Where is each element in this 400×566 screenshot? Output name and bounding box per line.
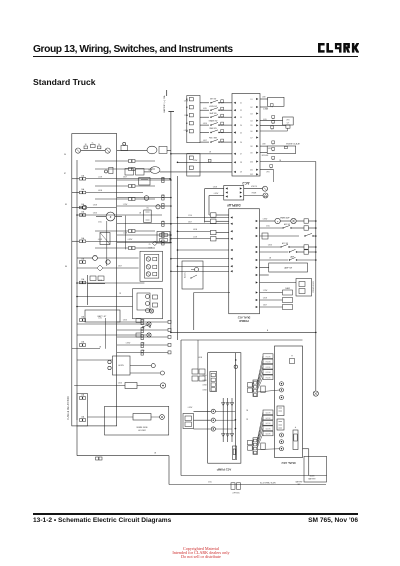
svg-text:85: 85 xyxy=(65,204,67,206)
pilot lamp xyxy=(160,383,165,388)
wire xyxy=(87,275,89,305)
pump pin 4 xyxy=(211,388,215,391)
wire xyxy=(171,270,229,272)
connector CN6 xyxy=(162,233,164,235)
svg-text:1.25B: 1.25B xyxy=(123,233,127,235)
terminal T2 xyxy=(280,388,284,392)
switch S2 HORN SW xyxy=(200,109,209,111)
svg-text:20AMP: 20AMP xyxy=(285,287,290,290)
svg-text:0.85W: 0.85W xyxy=(263,219,268,221)
power pin L2 xyxy=(230,223,232,225)
turn lamp 2 xyxy=(146,265,150,269)
svg-text:0.85L: 0.85L xyxy=(98,222,102,224)
svg-text:PARK SW: PARK SW xyxy=(209,127,217,130)
terminal circle 3 xyxy=(211,427,215,431)
power unit block DUAL ACJ POWER xyxy=(229,209,260,314)
wire xyxy=(95,185,129,187)
relay label box 1-1 xyxy=(263,354,273,359)
svg-text:1.25W: 1.25W xyxy=(263,290,268,292)
module label xyxy=(260,152,267,154)
feeder cluster xyxy=(192,369,198,374)
svg-text:D8: D8 xyxy=(251,146,253,148)
connector 2x xyxy=(248,440,253,444)
svg-text:BATTERY: BATTERY xyxy=(308,478,316,481)
wire xyxy=(258,367,264,386)
svg-text:2R: 2R xyxy=(209,152,212,154)
right bus wire xyxy=(315,162,317,392)
pin xyxy=(254,451,257,454)
relay label box 2-2 xyxy=(263,415,273,420)
power pin R12 xyxy=(256,306,258,308)
power pin R5 xyxy=(256,251,258,253)
svg-text:D5: D5 xyxy=(251,125,253,127)
wire xyxy=(95,160,129,162)
svg-text:15A: 15A xyxy=(81,278,85,281)
relay label box 2-4 xyxy=(263,426,273,431)
wire xyxy=(77,334,147,336)
wire xyxy=(95,230,129,232)
svg-text:0.85W: 0.85W xyxy=(184,130,189,132)
svg-text:1.25R: 1.25R xyxy=(98,177,103,179)
svg-text:10A: 10A xyxy=(142,319,146,322)
svg-text:0.85B: 0.85B xyxy=(198,357,202,359)
connector xyxy=(221,107,224,110)
wire xyxy=(258,434,264,448)
connector block xyxy=(277,419,284,430)
svg-text:0.85B: 0.85B xyxy=(203,390,207,392)
wire xyxy=(258,423,264,443)
wire xyxy=(117,234,162,236)
svg-text:2R: 2R xyxy=(246,419,249,421)
wire xyxy=(96,216,106,218)
wire xyxy=(258,377,264,389)
svg-text:LAMP SW: LAMP SW xyxy=(284,267,293,270)
aux sensor xyxy=(105,170,108,173)
svg-text:LOW: LOW xyxy=(262,144,266,146)
wire xyxy=(258,390,280,392)
power pin L5 xyxy=(230,249,232,251)
connector xyxy=(270,104,273,107)
connector 2x xyxy=(248,383,253,387)
wire xyxy=(258,356,264,382)
wire xyxy=(117,321,141,323)
wire xyxy=(77,296,133,298)
svg-text:30: 30 xyxy=(64,154,66,156)
terminal circle 2 xyxy=(211,418,215,422)
wire xyxy=(258,428,264,445)
svg-text:D1: D1 xyxy=(251,99,253,101)
connector xyxy=(208,159,211,162)
svg-text:10A: 10A xyxy=(162,194,166,197)
svg-text:0.85B: 0.85B xyxy=(203,385,207,387)
svg-text:D11: D11 xyxy=(250,170,253,172)
connector CN14 xyxy=(211,219,217,223)
svg-text:+: + xyxy=(295,426,297,429)
connector xyxy=(260,124,286,126)
wire to main right bus xyxy=(260,161,316,163)
svg-text:15A: 15A xyxy=(162,232,166,235)
wire xyxy=(117,352,141,354)
ACJ pin L6 xyxy=(234,141,236,143)
horn terminal 1 xyxy=(130,365,151,367)
diode xyxy=(226,403,230,406)
wire xyxy=(205,188,224,190)
relay label box 1-5 xyxy=(263,375,273,380)
svg-text:B+: B+ xyxy=(92,142,94,144)
aux box xyxy=(261,443,265,450)
subtitle Standard Truck xyxy=(33,77,96,87)
pin xyxy=(254,447,257,450)
wire xyxy=(171,153,232,155)
svg-text:D7: D7 xyxy=(251,137,253,139)
svg-text:0.85G: 0.85G xyxy=(93,213,98,215)
flasher unit ⊗ 1 xyxy=(147,322,151,326)
lamp L4 xyxy=(144,196,149,201)
svg-text:0.85R: 0.85R xyxy=(93,205,98,207)
svg-text:15A: 15A xyxy=(81,211,85,214)
footer left text xyxy=(33,517,171,524)
main bus wire 1 xyxy=(170,112,172,333)
svg-text:C4: C4 xyxy=(240,125,242,127)
hourmeter symbol xyxy=(244,188,263,190)
console box xyxy=(260,282,297,284)
relay K3 pins xyxy=(146,295,150,299)
svg-text:LOW OIL: LOW OIL xyxy=(251,186,257,188)
svg-text:0.85Y: 0.85Y xyxy=(203,140,207,142)
svg-text:0.85W: 0.85W xyxy=(214,193,219,195)
ACJ pin L5 xyxy=(234,131,236,133)
svg-text:1.25B: 1.25B xyxy=(184,115,188,117)
svg-text:0.85Y: 0.85Y xyxy=(118,266,122,268)
node starter terminal xyxy=(105,148,110,153)
display pin xyxy=(226,195,228,197)
svg-text:10A: 10A xyxy=(81,316,85,319)
buzzer B1 xyxy=(260,220,276,222)
svg-text:BATTERY (+), 30A: BATTERY (+), 30A xyxy=(163,95,166,112)
svg-text:Z: Z xyxy=(110,215,112,219)
svg-text:1.25W: 1.25W xyxy=(123,204,128,206)
main bus wire 2 xyxy=(177,176,179,340)
relay label box 2-5 xyxy=(263,431,273,436)
wire xyxy=(117,223,162,225)
switch S9 xyxy=(260,251,289,253)
svg-text:BATTERY: BATTERY xyxy=(296,481,303,484)
svg-text:25: 25 xyxy=(149,244,151,246)
svg-text:POWER: POWER xyxy=(239,319,249,322)
svg-text:HOLDER: HOLDER xyxy=(138,430,146,432)
fuel gauge symbol xyxy=(244,195,263,197)
pin 6 xyxy=(189,156,193,159)
connector block CN1b xyxy=(187,154,200,177)
connector CN7 xyxy=(162,240,164,242)
resistor R2 xyxy=(125,383,137,389)
connector CN16 xyxy=(211,237,217,241)
diode xyxy=(221,434,225,437)
connector CN11 xyxy=(141,343,143,345)
connector CN13 xyxy=(211,213,217,217)
connector block xyxy=(277,406,284,416)
svg-text:0.85L: 0.85L xyxy=(266,226,270,228)
svg-text:10A: 10A xyxy=(81,237,85,240)
wire xyxy=(72,348,100,350)
wire xyxy=(117,329,141,331)
svg-text:HOUR: HOUR xyxy=(252,193,257,195)
svg-text:0.85B: 0.85B xyxy=(98,280,102,282)
wire xyxy=(77,455,169,457)
pump internal bus xyxy=(234,353,236,459)
connector CN5 xyxy=(162,221,164,223)
svg-text:10A: 10A xyxy=(81,188,85,191)
ACJ pump unit box xyxy=(208,353,241,464)
svg-text:CONSOLE BOX: CONSOLE BOX xyxy=(313,280,315,293)
svg-text:ACC SW: ACC SW xyxy=(282,242,289,245)
connector CN10 xyxy=(141,335,143,337)
ACJ pin R12 xyxy=(256,173,258,175)
lamp L1 xyxy=(82,205,86,209)
svg-text:C7: C7 xyxy=(240,154,242,156)
relay label box 2-3 xyxy=(263,421,273,426)
diode xyxy=(221,403,225,406)
pump pin 2 xyxy=(211,378,215,381)
ACJ pin R8 xyxy=(256,145,258,147)
svg-text:FUSE & RELAY BOX: FUSE & RELAY BOX xyxy=(67,396,70,420)
fuse and relay box outline xyxy=(72,134,117,426)
svg-text:ACCEL: ACCEL xyxy=(183,272,186,278)
pin xyxy=(254,390,257,393)
connector CN4 xyxy=(162,204,164,206)
wire xyxy=(117,150,147,152)
ACJ pin R3 xyxy=(256,112,258,114)
svg-text:86: 86 xyxy=(65,266,67,268)
indicator LOW xyxy=(260,98,268,100)
hazard diamond xyxy=(153,241,157,245)
svg-text:C6: C6 xyxy=(240,142,242,144)
svg-text:SPARE FUSE: SPARE FUSE xyxy=(136,426,148,429)
svg-text:BATT–ST: BATT–ST xyxy=(98,315,107,318)
svg-text:D3: D3 xyxy=(251,113,253,115)
wire xyxy=(258,412,264,439)
svg-text:B-CON: B-CON xyxy=(266,434,270,436)
pin xyxy=(254,386,257,389)
wire xyxy=(178,265,229,267)
svg-text:C5: C5 xyxy=(240,132,242,134)
wire xyxy=(77,214,162,216)
pump contactor block xyxy=(183,414,194,429)
svg-text:D2: D2 xyxy=(251,107,253,109)
wire xyxy=(117,336,141,338)
fuse 20A xyxy=(260,299,283,301)
wire xyxy=(178,217,229,219)
svg-text:B-CON: B-CON xyxy=(266,418,270,420)
horn H1 xyxy=(113,356,131,375)
switch S1 KEY SW xyxy=(200,102,209,104)
wire xyxy=(215,410,235,412)
terminal pair xyxy=(108,360,111,363)
power pin L4 xyxy=(230,238,232,240)
switch S3 SEAT SW xyxy=(200,116,209,118)
connector CN24 xyxy=(129,230,132,233)
wire xyxy=(117,344,141,346)
svg-text:0.85G: 0.85G xyxy=(123,320,128,322)
wire xyxy=(178,230,211,232)
fuse 10A xyxy=(260,306,283,308)
ground lamp ⊗ xyxy=(313,391,318,396)
terminal T1 xyxy=(280,382,284,386)
svg-text:0.85R: 0.85R xyxy=(213,186,218,188)
svg-text:OIL: OIL xyxy=(146,208,149,210)
svg-text:P-CON: P-CON xyxy=(266,362,270,364)
connector CN22 xyxy=(129,185,132,188)
relay label box 1-4 xyxy=(263,370,273,375)
svg-text:DUAL ACJ: DUAL ACJ xyxy=(237,315,250,318)
display unit box xyxy=(224,186,244,201)
svg-text:30: 30 xyxy=(85,144,87,146)
power pin R10 xyxy=(256,291,258,293)
fuel unit xyxy=(260,169,274,171)
svg-text:2B: 2B xyxy=(279,160,281,162)
svg-text:0.85W: 0.85W xyxy=(126,343,131,345)
bus wire (fuse box internal) xyxy=(76,160,78,420)
pump bus terminal xyxy=(234,365,237,368)
svg-text:0.85B: 0.85B xyxy=(193,229,197,231)
power pin L8 xyxy=(230,270,232,272)
aux box xyxy=(261,386,265,393)
connector block CN1 xyxy=(187,96,200,143)
wire xyxy=(171,238,211,240)
svg-text:0.85G: 0.85G xyxy=(268,148,273,150)
lamp switch box xyxy=(260,267,269,269)
wire xyxy=(95,198,129,200)
svg-text:HORN SW: HORN SW xyxy=(209,106,217,108)
wire xyxy=(169,484,229,486)
battery feed label xyxy=(166,90,168,96)
inner fuse holder box xyxy=(77,394,88,426)
svg-text:0.85R: 0.85R xyxy=(263,298,268,300)
LPG cut valve xyxy=(260,120,283,122)
pin 2 xyxy=(189,106,193,109)
svg-text:B-CON: B-CON xyxy=(266,428,270,430)
pin xyxy=(254,439,257,442)
svg-text:1.25R: 1.25R xyxy=(193,237,198,239)
wire xyxy=(258,361,264,383)
svg-text:ENGINE OIL ALAR: ENGINE OIL ALAR xyxy=(286,143,300,146)
power pin R2 xyxy=(256,227,258,229)
connector xyxy=(221,100,224,103)
svg-text:0.85Y: 0.85Y xyxy=(123,177,127,179)
ACJ pin L1 xyxy=(234,102,236,104)
flasher ⊗ extra xyxy=(149,309,153,313)
switch S5 PARK SW xyxy=(200,132,209,134)
wire xyxy=(105,416,134,418)
svg-text:0.85B: 0.85B xyxy=(148,170,152,172)
svg-text:D6: D6 xyxy=(251,131,253,133)
svg-text:0.85L: 0.85L xyxy=(263,119,267,121)
svg-text:HORN: HORN xyxy=(118,365,124,367)
relay K1 coil xyxy=(106,212,115,221)
wire jog xyxy=(125,216,127,250)
wire xyxy=(117,242,162,244)
svg-text:KEY SW: KEY SW xyxy=(210,98,217,100)
svg-text:+: + xyxy=(291,355,293,358)
wire xyxy=(72,178,79,180)
power pin R7 xyxy=(256,266,258,268)
relay label box 1-3 xyxy=(263,364,273,369)
svg-text:2B: 2B xyxy=(139,213,141,215)
power pin L3 xyxy=(230,230,232,232)
buzzer BZ1 xyxy=(97,265,103,271)
horn terminal 2 xyxy=(130,372,160,374)
svg-text:0.85R: 0.85R xyxy=(98,239,103,241)
pump pin 3 xyxy=(211,383,215,386)
power pin R1 xyxy=(256,220,258,222)
connector CN3 xyxy=(162,195,164,197)
svg-text:2B: 2B xyxy=(269,258,271,260)
svg-text:0.85L: 0.85L xyxy=(203,108,207,110)
svg-text:C1: C1 xyxy=(240,103,242,105)
flasher unit ⊗ 2 xyxy=(147,333,151,337)
ACJ pin R10 xyxy=(256,160,258,162)
connector CN25 xyxy=(129,247,132,250)
wire xyxy=(171,223,229,225)
ACJ pin L2 xyxy=(234,109,236,111)
svg-text:1.25W: 1.25W xyxy=(193,160,198,162)
pin 7 xyxy=(189,166,193,169)
hourmeter connector xyxy=(231,483,235,490)
svg-text:0.85G: 0.85G xyxy=(268,245,273,247)
oil alarm loop xyxy=(260,145,267,147)
lamp L3 xyxy=(106,260,110,264)
svg-text:D4: D4 xyxy=(251,120,253,122)
flasher unit box xyxy=(140,251,163,281)
wire xyxy=(258,448,280,451)
wire jog xyxy=(105,318,107,349)
ignition coil T1 xyxy=(121,146,128,151)
wire xyxy=(77,359,113,361)
wire xyxy=(117,197,162,199)
power pin R11 xyxy=(256,299,258,301)
connector CN12 xyxy=(141,350,143,352)
connector CN8 xyxy=(141,320,143,322)
svg-text:FWD / REV: FWD / REV xyxy=(209,138,218,140)
pump fuse xyxy=(233,446,237,460)
wire xyxy=(86,240,162,242)
battery fuse xyxy=(293,430,298,450)
power pin L1 xyxy=(230,216,232,218)
power pin R4 xyxy=(256,246,258,248)
junction box xyxy=(157,232,170,244)
svg-text:1.25B: 1.25B xyxy=(148,248,152,250)
svg-text:2R: 2R xyxy=(119,293,122,295)
wire xyxy=(88,416,105,418)
wire xyxy=(229,484,326,486)
fusible link FL2 xyxy=(91,144,96,147)
connector xyxy=(221,139,224,142)
ACJ pin L7 xyxy=(234,153,236,155)
ACJ pin L3 xyxy=(234,116,236,118)
display pin xyxy=(226,187,228,189)
power pin R8 xyxy=(256,274,258,276)
power pin L7 xyxy=(230,265,232,267)
svg-text:C2: C2 xyxy=(240,110,242,112)
pump connector column xyxy=(210,372,217,392)
wire xyxy=(77,306,133,308)
key switch box xyxy=(304,456,327,482)
wire xyxy=(260,235,300,237)
wire xyxy=(260,274,269,276)
svg-text:LPG: LPG xyxy=(266,171,270,173)
wire xyxy=(77,267,97,269)
wire xyxy=(178,161,233,163)
